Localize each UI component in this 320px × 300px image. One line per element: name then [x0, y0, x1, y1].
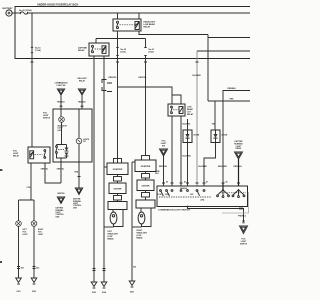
ground G301 [16, 278, 22, 293]
svg-text:G301: G301 [16, 291, 20, 293]
svg-text:SWITCH: SWITCH [43, 117, 51, 119]
wire inverter ground jog [104, 166, 107, 168]
ground wire G401 vertical [132, 162, 137, 281]
svg-text:RED/BLK: RED/BLK [234, 166, 243, 168]
wire fuse15 to fog light relay [31, 54, 33, 148]
wire left bulb ground jog [104, 226, 114, 228]
wire lights-on output [75, 162, 81, 188]
inverter left [107, 163, 128, 175]
svg-text:BLU/RED: BLU/RED [193, 75, 202, 77]
svg-text:RELAY: RELAY [236, 147, 243, 150]
left bulb housing [108, 202, 127, 210]
svg-text:LIGHT SW: LIGHT SW [57, 85, 66, 87]
connector to daytime running light unit B [73, 188, 83, 209]
svg-text:RED/GRN: RED/GRN [218, 166, 227, 168]
wire battery to fuse 41 [12, 12, 20, 14]
wire to right edge y37.5 [208, 37, 250, 39]
svg-text:G303: G303 [92, 292, 96, 294]
svg-text:RELAY: RELAY [78, 49, 85, 52]
junction on switch bottom [187, 206, 189, 208]
left stack connector 3 [114, 194, 122, 202]
svg-text:RELAY: RELAY [187, 113, 194, 116]
wire relay U1 pin stubs [118, 13, 140, 19]
svg-text:DIODE: DIODE [222, 135, 228, 137]
svg-text:(15A): (15A) [149, 51, 154, 54]
wire fuse No.21 to right headlight [145, 56, 147, 156]
svg-text:COMBINATION LIGHT SWITCH: COMBINATION LIGHT SWITCH [158, 209, 190, 212]
combination light switch source connector T1 [55, 82, 68, 109]
fog light switch box [43, 109, 92, 162]
fuse No.15 [31, 47, 42, 54]
svg-text:DIODE: DIODE [194, 135, 200, 137]
wire diode B to switch [199, 143, 216, 187]
svg-text:INVERTER: INVERTER [113, 169, 123, 171]
igniter right [137, 180, 154, 191]
svg-text:G302: G302 [32, 291, 36, 293]
fuse No.41 [19, 9, 32, 14]
wire relay U2 contact output (long) [103, 56, 105, 282]
svg-text:RED/YEL: RED/YEL [109, 77, 118, 79]
ground G401 [129, 281, 135, 294]
svg-text:BLU/YEL: BLU/YEL [183, 124, 192, 126]
diode A [183, 130, 200, 143]
right headlight bulb [137, 208, 152, 239]
right headlight connector notch [142, 156, 150, 161]
relay U2 [78, 43, 109, 56]
svg-text:(7.5A): (7.5A) [35, 49, 41, 52]
wire color labels row1 [109, 75, 202, 79]
svg-text:LOW: LOW [158, 194, 162, 196]
svg-text:SW: SW [162, 145, 165, 147]
svg-text:RED/BLK: RED/BLK [78, 101, 86, 103]
dimmer passing switch fans [180, 187, 246, 198]
wire from right edge y51 [197, 50, 250, 52]
fuse No.20 on relay output [116, 48, 127, 56]
fog switch contacts [56, 122, 67, 153]
svg-text:RED/BLK: RED/BLK [228, 88, 237, 90]
right fog light [31, 221, 44, 236]
combination light switch box [157, 186, 248, 212]
connector from daytime running light unit [234, 140, 244, 186]
svg-text:RELAY: RELAY [144, 26, 151, 29]
left headlight connector notch [114, 159, 122, 164]
diode B feed [212, 101, 217, 130]
svg-text:GRN/YEL: GRN/YEL [57, 193, 65, 195]
wire fog light feed split [19, 200, 35, 221]
page edge mark 2 [0, 261, 2, 263]
ticks on relay U2 ground wire [93, 269, 106, 271]
svg-text:(ON): (ON) [201, 200, 205, 202]
taillight relay source connector T2 [77, 77, 87, 109]
wire fog switch to DRL unit [57, 162, 65, 183]
svg-text:(15A): (15A) [121, 51, 126, 54]
fog light relay [13, 147, 50, 163]
combination switch terminals [158, 190, 212, 202]
svg-text:PNK: PNK [230, 99, 235, 101]
diode A feed [183, 119, 192, 130]
left fog light [16, 221, 29, 236]
pin ticks above combination switch [162, 181, 240, 184]
svg-text:G304: G304 [102, 291, 106, 294]
wire right bulb ground jog [132, 226, 142, 228]
svg-text:IGNITER: IGNITER [142, 186, 150, 188]
wire fog relay coil output [41, 163, 62, 183]
inverter right [135, 160, 156, 172]
under-hood fuse/relay box [15, 2, 252, 58]
wire right fog light ground [33, 226, 41, 278]
svg-text:INVERTER: INVERTER [141, 166, 151, 168]
svg-text:BEAM): BEAM) [108, 237, 114, 240]
connector to daytime running light unit A [56, 193, 65, 218]
wire relay U2 feed [96, 39, 146, 44]
connector from passing switch [159, 141, 168, 187]
wire relay U1 contact output (long vertical to left headlight) [117, 31, 119, 163]
svg-text:OFF: OFF [190, 194, 193, 196]
fuse No.21 [144, 39, 155, 56]
left headlight bulb [108, 210, 124, 241]
pin ticks below fuse box [31, 61, 199, 63]
svg-text:BEAM): BEAM) [137, 236, 143, 239]
fog switch output join [57, 153, 67, 162]
wire from right edge y90.5 [218, 88, 250, 186]
wire cut relay outputs [172, 116, 181, 186]
lights on switch [76, 109, 90, 162]
svg-text:PNK/BLU: PNK/BLU [238, 216, 247, 218]
wire fog relay contact output [27, 163, 32, 200]
page edge mark 1 [0, 169, 2, 171]
svg-text:GRN/YEL: GRN/YEL [57, 169, 65, 171]
wire left fog light ground [17, 226, 25, 278]
wire relay U1 coil to right run [139, 31, 208, 35]
gray return wire [222, 192, 249, 213]
wire relay U2 coil ground (long) [93, 56, 95, 282]
svg-text:RELAY: RELAY [13, 154, 20, 157]
svg-text:IGNITER: IGNITER [114, 189, 122, 191]
wire from right edge y101 [208, 99, 250, 102]
right bulb housing [136, 200, 155, 208]
wire branch y87 to cut relay [118, 87, 173, 104]
connector to fog light switch [240, 226, 248, 245]
svg-text:No.41 (100A): No.41 (100A) [19, 9, 32, 12]
indicator light [58, 109, 68, 132]
svg-text:BLU/RED: BLU/RED [199, 166, 208, 168]
diode B [211, 130, 228, 143]
svg-text:BLU/RED: BLU/RED [183, 156, 192, 158]
ground G302 [31, 278, 37, 293]
wire diode A to switch [183, 143, 192, 187]
ground G304 [101, 282, 107, 294]
svg-text:RED/YEL: RED/YEL [139, 77, 148, 79]
right stack connector 3 [142, 191, 150, 201]
fog switch diodes [65, 146, 69, 158]
right stack connector 2 [142, 172, 150, 181]
label GRN/BLU [155, 171, 160, 175]
wire branch to fuse 15 [31, 13, 33, 47]
left stack connector 2 [114, 175, 122, 184]
main wire B+ [28, 12, 251, 14]
svg-text:UNDER-HOOD FUSE/RELAY BOX: UNDER-HOOD FUSE/RELAY BOX [37, 2, 78, 6]
svg-text:SWITCH: SWITCH [240, 243, 248, 245]
svg-text:C708: C708 [27, 187, 31, 189]
headlight relay U1 [113, 19, 156, 31]
igniter left [109, 183, 126, 194]
ground G303 [91, 282, 97, 294]
svg-text:GRN/YEL: GRN/YEL [41, 169, 49, 171]
svg-text:RELAY: RELAY [79, 79, 86, 82]
svg-text:RED/BLK: RED/BLK [57, 101, 65, 103]
svg-text:G401: G401 [130, 291, 134, 294]
wire cut relay second feed [172, 95, 181, 104]
connector brackets on x104 [102, 76, 112, 92]
svg-text:RED/YEL: RED/YEL [159, 166, 168, 168]
svg-text:BATTERY: BATTERY [3, 7, 14, 10]
wire node x208 down [207, 35, 209, 102]
low beam cut relay U3 [168, 104, 194, 116]
thick feed to dimmer switch [222, 183, 224, 190]
wire gray vertical to combination switch [196, 51, 198, 186]
battery [3, 7, 14, 16]
wire switch output to fog light switch connector [188, 207, 247, 223]
